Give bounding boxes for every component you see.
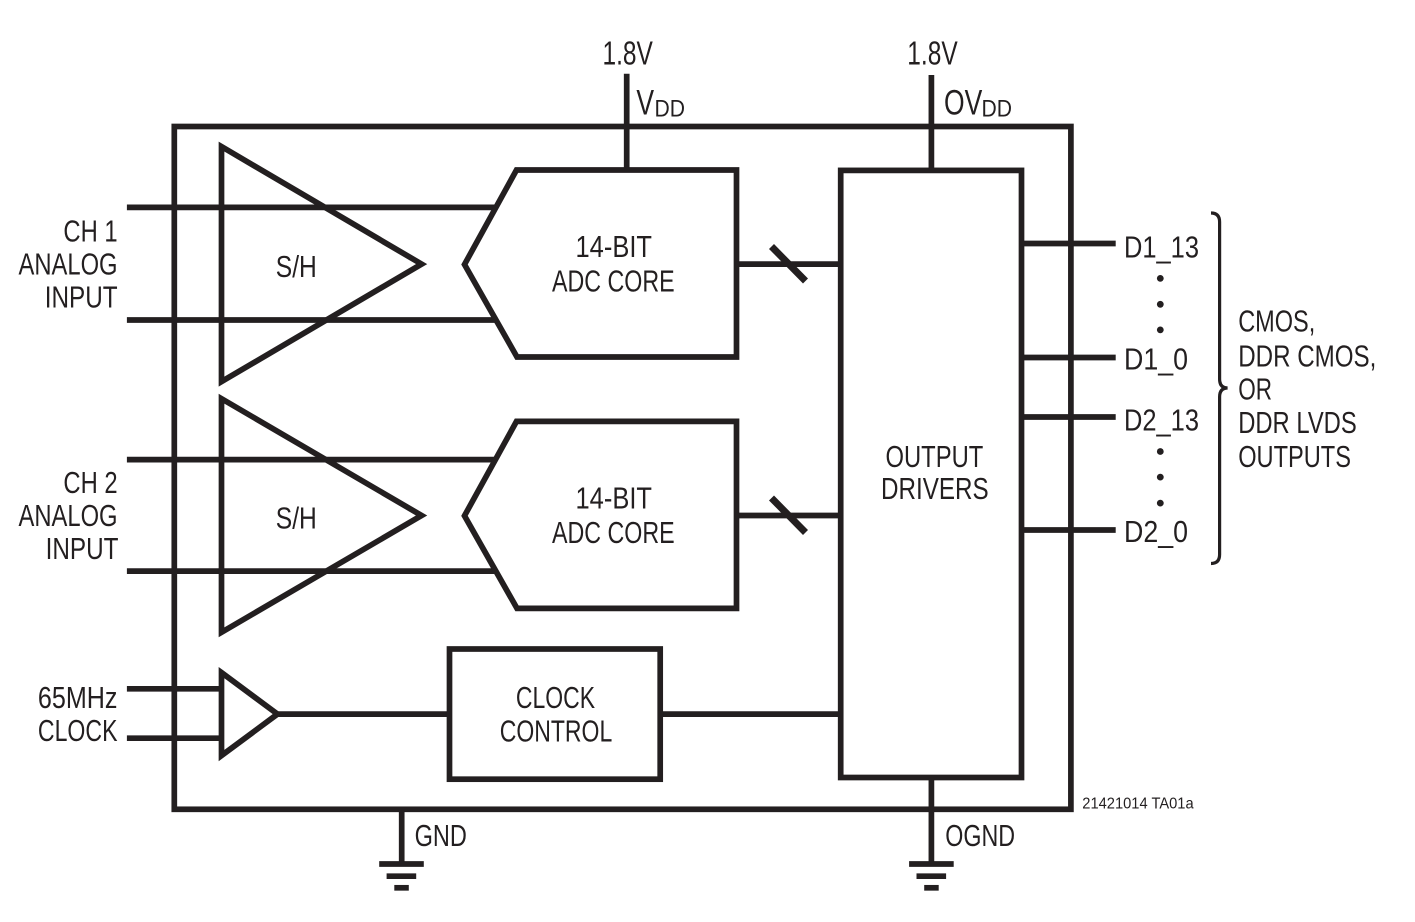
- svg-text:S/H: S/H: [276, 249, 317, 283]
- svg-text:CH 1: CH 1: [63, 213, 117, 248]
- svg-text:D2_13: D2_13: [1124, 403, 1199, 437]
- svg-text:CLOCK: CLOCK: [516, 681, 595, 715]
- svg-text:DDR CMOS,: DDR CMOS,: [1238, 339, 1376, 373]
- svg-text:CMOS,: CMOS,: [1238, 304, 1315, 339]
- svg-text:DD: DD: [655, 95, 685, 122]
- svg-text:S/H: S/H: [276, 501, 317, 535]
- svg-text:14-BIT: 14-BIT: [576, 230, 652, 264]
- svg-text:CONTROL: CONTROL: [500, 715, 613, 749]
- svg-text:CH 2: CH 2: [63, 465, 117, 500]
- svg-text:14-BIT: 14-BIT: [576, 481, 652, 515]
- svg-text:D1_0: D1_0: [1124, 343, 1188, 377]
- svg-text:GND: GND: [415, 818, 467, 853]
- svg-text:D1_13: D1_13: [1124, 230, 1199, 264]
- svg-text:DD: DD: [982, 95, 1012, 122]
- svg-text:V: V: [636, 83, 654, 123]
- svg-text:ANALOG: ANALOG: [19, 246, 118, 281]
- svg-text:1.8V: 1.8V: [907, 36, 958, 72]
- svg-text:ADC CORE: ADC CORE: [552, 515, 675, 550]
- svg-text:65MHz: 65MHz: [38, 681, 118, 715]
- svg-text:INPUT: INPUT: [45, 280, 118, 314]
- svg-text:OR: OR: [1238, 372, 1272, 406]
- svg-text:ADC CORE: ADC CORE: [552, 263, 675, 298]
- svg-text:OUTPUT: OUTPUT: [886, 439, 984, 474]
- svg-text:ANALOG: ANALOG: [19, 498, 118, 533]
- svg-text:D2_0: D2_0: [1124, 515, 1188, 549]
- svg-text:OV: OV: [944, 83, 982, 123]
- svg-text:1.8V: 1.8V: [603, 36, 654, 72]
- svg-text:OUTPUTS: OUTPUTS: [1238, 439, 1351, 474]
- svg-text:INPUT: INPUT: [46, 532, 119, 566]
- svg-text:21421014 TA01a: 21421014 TA01a: [1082, 795, 1194, 812]
- svg-text:DRIVERS: DRIVERS: [881, 471, 989, 505]
- svg-text:DDR LVDS: DDR LVDS: [1238, 405, 1357, 440]
- svg-text:OGND: OGND: [945, 818, 1015, 853]
- svg-text:CLOCK: CLOCK: [38, 714, 118, 748]
